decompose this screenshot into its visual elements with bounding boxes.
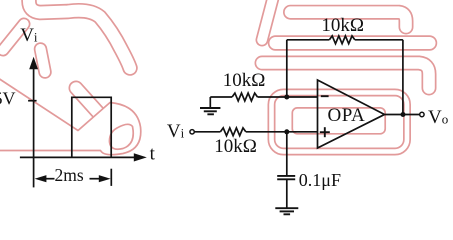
svg-text:10kΩ: 10kΩ [223,70,266,91]
resistor 10k (input, to non-inverting input) [220,128,245,136]
dimension arrow left [46,178,55,180]
wire resistor to op-amp - input [258,96,318,98]
wire op-amp output to Vo terminal [385,114,420,116]
terminal Vi [190,130,194,134]
input waveform graph: Vi axis (vertical) [33,68,35,187]
input waveform graph: t axis (horizontal) [20,156,136,158]
svg-text:10kΩ: 10kΩ [214,136,257,157]
svg-text:t: t [150,144,156,165]
node: non-inverting input junction [284,129,289,134]
5V tick mark [28,100,36,102]
svg-text:5V: 5V [0,88,16,108]
watermark (decorative background, not labelled further) [0,0,430,155]
wire capacitor to ground [286,179,288,208]
node: inverting input junction [284,95,289,100]
wire input resistor to op-amp + input [246,131,318,133]
wire ground to inverting resistor [210,96,232,98]
capacitor 0.1uF [277,175,295,177]
op-amp inverting pin marker (-) [321,95,329,97]
wire junction to capacitor [286,132,288,176]
ground (below capacitor) [275,207,298,209]
svg-text:10kΩ: 10kΩ [321,15,364,36]
node: output junction [401,112,406,117]
ground (inverting branch) [209,97,211,107]
wire feedback top left segment [287,39,330,41]
wire feedback top right segment [355,39,403,41]
svg-text:OPA: OPA [328,105,366,126]
dimension arrow right [90,178,100,180]
op-amp non-inverting pin marker (+) [320,131,330,133]
wire feedback riser (inverting node up) [286,40,288,97]
svg-text:0.1μF: 0.1μF [299,170,341,190]
pulse waveform (5V, 2ms) [72,97,111,157]
dimension bar right [110,169,112,186]
terminal Vo [420,112,424,116]
wire Vi terminal to input resistor [194,131,220,133]
wire feedback down to output node [402,40,404,115]
resistor 10k (feedback) [329,36,354,44]
resistor 10k (ground to inverting input) [232,93,257,101]
svg-text:2ms: 2ms [55,165,84,185]
op-amp OPA [318,80,385,148]
